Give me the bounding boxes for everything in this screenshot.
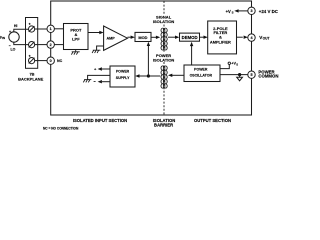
transformer T1 (signal isolation) <box>161 28 167 50</box>
svg-text:NC = NO CONNECTION: NC = NO CONNECTION <box>43 127 79 131</box>
pin 3 <box>248 7 255 14</box>
svg-text:+V: +V <box>226 9 231 14</box>
svg-text:IN: IN <box>2 36 5 40</box>
riser junction to MOD with arrow <box>147 46 149 76</box>
svg-text:OUTPUT SECTION: OUTPUT SECTION <box>194 118 231 123</box>
svg-text:+: + <box>9 30 11 34</box>
7B backplane box <box>26 18 38 69</box>
svg-text:POWER: POWER <box>116 70 130 74</box>
minus mark at source <box>9 44 11 47</box>
svg-text:3: 3 <box>250 9 252 13</box>
ground at power supply <box>83 80 91 83</box>
svg-text:2: 2 <box>50 43 52 47</box>
svg-text:NC: NC <box>57 59 63 63</box>
ground below PROT block <box>71 50 79 55</box>
wire T2 to power oscillator with arrow pointing into T2 <box>172 74 184 76</box>
svg-text:+24 V DC: +24 V DC <box>259 9 279 14</box>
wire screw2 to pin2 <box>35 44 47 46</box>
svg-text:BARRIER: BARRIER <box>154 122 173 127</box>
wire pin2 to PROT <box>54 44 63 46</box>
POWER SUPPLY block <box>110 66 135 87</box>
svg-text:POWER: POWER <box>194 67 208 71</box>
DEMOD block <box>180 33 200 41</box>
wire AMP to MOD with arrow <box>128 36 131 38</box>
wire junction to power supply with arrow <box>139 75 148 77</box>
wire DEMOD to filter with arrow <box>200 36 204 38</box>
svg-text:BACKPLANE: BACKPLANE <box>18 76 43 81</box>
wire T1 to DEMOD with arrow <box>168 36 175 38</box>
svg-text:ISOLATION: ISOLATION <box>153 19 175 24</box>
3-pole filter & amplifier block <box>208 21 237 54</box>
+Vs open terminal <box>228 62 230 64</box>
module outline box <box>51 1 252 115</box>
svg-text:ISOLATED INPUT SECTION: ISOLATED INPUT SECTION <box>73 118 127 123</box>
svg-text:MOD: MOD <box>138 35 147 40</box>
svg-text:1: 1 <box>50 27 52 31</box>
PROT & LPF block <box>64 24 89 50</box>
wire PROT to AMP with arrow <box>88 32 100 34</box>
ground at AMP input <box>92 50 100 53</box>
transformer T2 (power isolation) <box>161 66 167 89</box>
svg-text:AMP: AMP <box>106 37 115 41</box>
wire MOD to T1 with arrow <box>151 36 156 38</box>
wire pin1 to PROT <box>54 28 63 30</box>
svg-text:OUT: OUT <box>263 37 270 41</box>
power supply ground wire <box>88 75 110 79</box>
power supply + output arrow <box>102 68 110 70</box>
riser oscillator to DEMOD with arrow <box>191 46 193 65</box>
junction J1 <box>147 74 150 77</box>
pin 0 <box>47 57 54 64</box>
svg-text:SUPPLY: SUPPLY <box>116 76 130 80</box>
wire screw1 to pin1 <box>35 28 47 30</box>
svg-text:*: * <box>29 54 31 59</box>
svg-text:0: 0 <box>50 59 52 63</box>
pin 5 <box>248 71 255 78</box>
wire LO <box>14 42 29 45</box>
power supply - output arrow <box>102 81 110 83</box>
wire oscillator to pin5 <box>220 74 248 76</box>
svg-text:S: S <box>232 11 234 15</box>
svg-text:S: S <box>236 62 238 66</box>
pin 4 <box>248 34 255 41</box>
junction J2 <box>238 73 241 76</box>
wire junction to T2 <box>148 75 160 77</box>
MOD block <box>135 32 151 41</box>
svg-text:LPF: LPF <box>72 37 80 42</box>
svg-text:*: * <box>29 22 31 27</box>
op-amp AMP <box>104 26 128 50</box>
POWER OSCILLATOR block <box>184 65 220 82</box>
svg-text:LO: LO <box>10 47 15 51</box>
pin 2 <box>47 41 54 48</box>
svg-text:OSCILLATOR: OSCILLATOR <box>190 73 213 77</box>
voltage source eIN <box>9 32 19 42</box>
screw terminal 2 <box>29 42 35 48</box>
screw terminal 3 <box>29 58 35 64</box>
svg-text:5: 5 <box>250 73 252 77</box>
pin 1 <box>47 25 54 32</box>
screw terminal 1 <box>29 26 35 32</box>
isolation barrier dashed line <box>163 1 165 115</box>
wire pin3 to +Vs arrow <box>239 10 248 12</box>
svg-text:COMMON: COMMON <box>258 74 278 79</box>
wire filter to pin4 with arrow <box>237 36 243 38</box>
svg-text:DEMOD: DEMOD <box>182 35 198 40</box>
svg-text:ISOLATION: ISOLATION <box>153 58 175 63</box>
output common ground triangle <box>239 75 241 78</box>
svg-text:AMPLIFIER: AMPLIFIER <box>210 39 231 44</box>
wire AMP inverting input to ground <box>97 46 104 50</box>
wire screw3 to pin0 <box>35 60 47 62</box>
oscillator +Vs tap wire <box>220 65 229 69</box>
wire HI <box>14 29 29 32</box>
svg-text:HI: HI <box>14 24 18 28</box>
